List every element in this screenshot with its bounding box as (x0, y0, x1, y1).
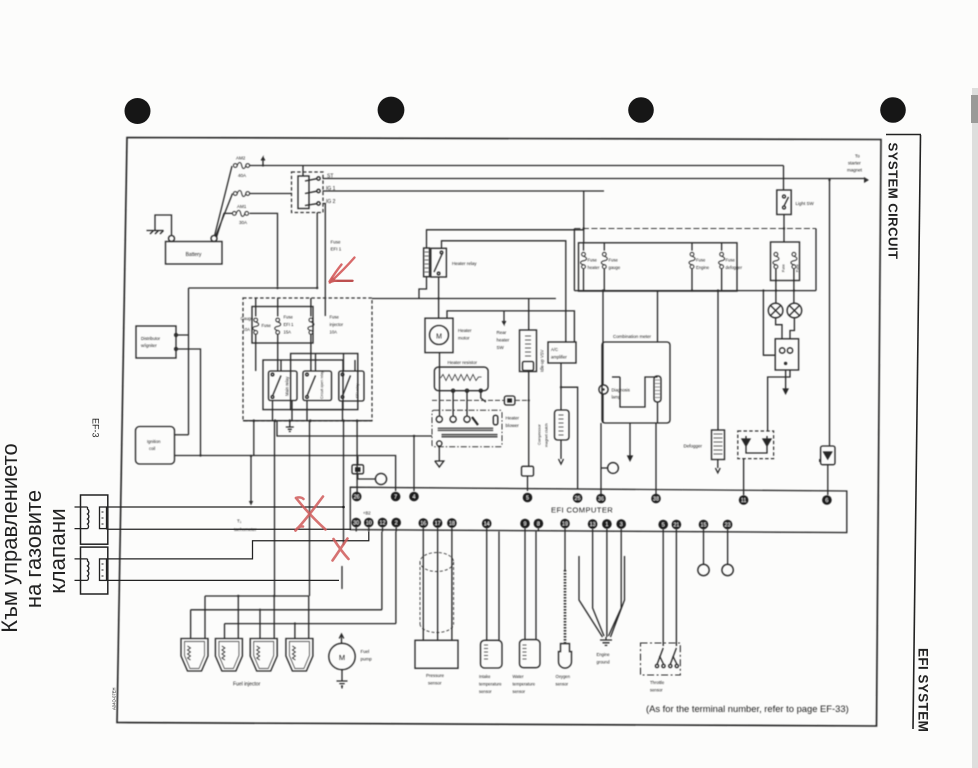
fuel pump (329, 643, 355, 669)
wire taillight bus dashed (574, 228, 816, 230)
wire heater relay contact to motor (438, 277, 440, 318)
svg-text:Heater: Heater (506, 416, 520, 421)
wire ST to starter magnet (323, 178, 865, 180)
inner fuse box (252, 307, 313, 344)
gas valve solenoid 2 (81, 547, 108, 594)
wire relay rail down to injector bus A (274, 421, 276, 596)
svg-text:30: 30 (353, 520, 359, 526)
svg-text:M: M (436, 334, 442, 341)
wire solenoid2 a step (107, 532, 369, 559)
svg-text:pump: pump (361, 657, 373, 662)
svg-text:30A: 30A (239, 220, 247, 225)
svg-text:Heater relay: Heater relay (452, 261, 477, 266)
svg-text:EFI 1: EFI 1 (331, 247, 342, 252)
svg-text:injector: injector (330, 322, 344, 327)
fuse mid (275, 318, 281, 334)
svg-text:Main relay: Main relay (285, 376, 290, 396)
svg-text:Circuit open relay: Circuit open relay (320, 371, 324, 399)
wire light SW out (783, 215, 785, 229)
water temperature sensor (520, 640, 541, 668)
svg-text:M: M (339, 653, 345, 662)
wires throttle sensor (663, 532, 676, 647)
fuse defogger tap (719, 252, 725, 268)
A/C amplifier (548, 342, 576, 363)
diagnosis connector W (352, 465, 364, 474)
svg-text:Light SW: Light SW (796, 201, 815, 206)
svg-text:16: 16 (420, 521, 426, 527)
svg-text:sensor: sensor (650, 688, 663, 693)
svg-text:1: 1 (605, 522, 608, 528)
svg-text:magnet clutch: magnet clutch (545, 423, 549, 447)
wire coil minus (IGt) (175, 456, 396, 492)
svg-text:defogger: defogger (726, 265, 743, 270)
svg-text:Fuse: Fuse (796, 264, 800, 272)
light SW (783, 166, 785, 191)
starter branch diode (829, 180, 831, 446)
svg-text:Fuse: Fuse (262, 323, 272, 328)
page right edge shadow (972, 88, 978, 768)
side tab vertical rule (913, 135, 921, 729)
svg-text:Throttle: Throttle (650, 680, 665, 685)
fuel injector 2 (215, 639, 242, 672)
binder hole dot 3 (628, 97, 654, 123)
injector bus B (191, 532, 382, 639)
defogger (717, 291, 719, 430)
red cut mark X2 (333, 539, 349, 561)
wire clutch to open arrow (559, 440, 564, 464)
wires water temp sensor (525, 532, 536, 641)
svg-text:3: 3 (620, 522, 623, 528)
stub up junction (261, 158, 265, 166)
svg-text:heater: heater (588, 265, 600, 270)
svg-text:Fuse: Fuse (782, 264, 786, 272)
svg-text:starter: starter (848, 161, 861, 166)
oxygen sensor (559, 644, 572, 669)
red arrow (329, 258, 355, 284)
svg-text:w/igniter: w/igniter (141, 343, 157, 348)
svg-text:A04O-07EH: A04O-07EH (112, 687, 117, 710)
fuse gauge 10A (253, 318, 259, 334)
EFI terminals top row (352, 492, 832, 505)
intake temperature sensor (481, 640, 503, 668)
fuse gauge (601, 252, 607, 268)
svg-text:Fuse: Fuse (696, 258, 706, 263)
wire solenoid1 b (107, 528, 352, 530)
fuel pump arrow stub (339, 634, 344, 644)
wire terminal26 feed (356, 421, 358, 492)
fuel injector 4 (286, 639, 313, 672)
ignition coil (136, 427, 175, 465)
side tab rule top (886, 134, 921, 136)
svg-text:magnet: magnet (847, 168, 863, 173)
binder hole dot 1 (125, 98, 151, 124)
svg-text:Fuse: Fuse (588, 258, 598, 263)
meter dangling arrow (628, 423, 632, 461)
svg-text:blower: blower (506, 423, 520, 428)
svg-text:10: 10 (366, 520, 372, 526)
svg-text:14: 14 (484, 521, 490, 527)
svg-text:sensor: sensor (479, 689, 492, 694)
switch open arrow (783, 370, 788, 394)
wires fuse verticals (256, 298, 326, 316)
relay group boxes (263, 360, 343, 410)
svg-text:(As for the terminal number, r: (As for the terminal number, refer to pa… (646, 703, 849, 714)
svg-text:19: 19 (562, 521, 568, 527)
EFI relay (339, 371, 364, 401)
svg-text:9: 9 (524, 521, 527, 527)
diagnosis lamp (599, 385, 608, 394)
svg-text:13: 13 (590, 522, 596, 528)
svg-text:EFI relay: EFI relay (356, 383, 360, 398)
fuse row box (579, 243, 738, 291)
svg-text:5: 5 (526, 495, 529, 501)
wire AM2 out to ignition switch (250, 166, 304, 194)
fusible link AM1 30A (232, 210, 248, 216)
svg-text:Fuse: Fuse (330, 315, 340, 320)
indicator lamp right (787, 303, 802, 318)
injector bus A (205, 595, 309, 597)
heater relay (424, 248, 430, 277)
fuse engine (689, 252, 695, 268)
svg-text:15: 15 (701, 522, 707, 528)
wire motor branch right (447, 311, 574, 342)
svg-text:Battery: Battery (186, 252, 202, 258)
wire motor to resistor to switch (440, 353, 486, 416)
heater blower switch (432, 410, 502, 447)
diode pack dashed (738, 431, 774, 459)
svg-text:21: 21 (673, 522, 679, 528)
svg-text:38: 38 (653, 496, 659, 502)
svg-text:To: To (855, 154, 860, 159)
wire battery plus to fusible links (215, 166, 233, 237)
svg-text:Fuse: Fuse (331, 240, 342, 245)
svg-text:18: 18 (449, 521, 455, 527)
svg-text:+B2: +B2 (363, 511, 371, 516)
wire oxygen sensor braided (564, 532, 566, 571)
svg-text:Engine: Engine (696, 265, 710, 270)
fuse heater (581, 252, 587, 268)
wire switch feed left (763, 291, 775, 356)
fuse injector 10A (308, 318, 314, 334)
distributor w/igniter (136, 326, 176, 358)
blower connector on wire (432, 399, 529, 401)
svg-text:gauge: gauge (609, 265, 621, 270)
accessory bus wire (574, 290, 816, 292)
fusible link mid (233, 191, 249, 197)
svg-text:AM2: AM2 (236, 156, 246, 161)
svg-text:Idle-up VSV: Idle-up VSV (540, 349, 545, 372)
wires intake temp sensor (487, 532, 499, 642)
pressure sensor (415, 640, 458, 668)
svg-text:temperature: temperature (513, 682, 536, 687)
engine ground funnel (579, 532, 625, 638)
meter resistor bar (654, 376, 661, 402)
svg-text:Distributor: Distributor (141, 336, 161, 341)
wires relays to bottom rail (273, 354, 356, 421)
schematic frame (117, 138, 881, 727)
svg-text:sensor: sensor (513, 689, 526, 694)
svg-text:ground: ground (597, 660, 611, 665)
svg-text:клапани: клапани (45, 508, 70, 593)
binder hole dot 4 (880, 97, 906, 123)
ground at relay rail (286, 421, 294, 432)
svg-text:Fuse: Fuse (726, 258, 736, 263)
wire AM1 out down (250, 213, 278, 286)
tach branch arrow (250, 456, 252, 503)
tail fuse pair box (771, 242, 800, 281)
EFI terminals bottom row (351, 518, 732, 530)
svg-text:на газовите: на газовите (21, 490, 46, 608)
wire EFI main feed across (372, 298, 556, 300)
svg-text:Fuel injector: Fuel injector (233, 682, 261, 688)
ground battery (155, 215, 172, 236)
svg-text:temperature: temperature (479, 682, 502, 687)
svg-text:17: 17 (435, 521, 441, 527)
check engine connector (608, 463, 619, 474)
svg-text:Combination meter: Combination meter (613, 334, 652, 339)
defogger switch (775, 339, 798, 370)
svg-text:36: 36 (598, 496, 604, 502)
wire ignition sw feed down (316, 213, 318, 289)
pressure sensor hose cylinder (420, 553, 454, 633)
svg-text:EF-3: EF-3 (91, 418, 101, 438)
wire IG2 down (323, 204, 326, 299)
meter outputs to EFI (601, 423, 656, 494)
wire distributor B+ (189, 287, 318, 289)
wire solenoid1 a (107, 506, 344, 508)
svg-text:10A: 10A (330, 330, 338, 335)
binder hole dot 2 (378, 97, 405, 124)
svg-text:Fuel: Fuel (361, 649, 370, 654)
svg-text:Compressor: Compressor (538, 424, 542, 445)
svg-text:Fuse: Fuse (284, 315, 294, 320)
ignition switch (292, 172, 324, 213)
svg-text:Към управлението: Към управлението (0, 443, 22, 632)
svg-text:EFI SYSTEM: EFI SYSTEM (916, 648, 931, 732)
blower switch ground (437, 441, 442, 446)
bottom row stubs (356, 527, 727, 531)
svg-text:11: 11 (741, 498, 747, 504)
svg-text:Water: Water (513, 674, 525, 679)
svg-text:7: 7 (394, 494, 397, 500)
svg-text:2: 2 (395, 520, 398, 526)
wire solenoid2 b (107, 579, 340, 581)
circuit opening relay (303, 371, 332, 401)
wire IG1 (323, 190, 605, 192)
fusible link AM2 40A (233, 163, 249, 169)
main relay (269, 371, 298, 401)
wire lamps to defogger switch (776, 318, 795, 339)
svg-text:Rear: Rear (497, 330, 507, 335)
compressor magnet clutch (555, 410, 570, 440)
fuel pump ground (337, 670, 348, 689)
svg-text:AM1: AM1 (237, 204, 247, 209)
wire heater relay feeds (427, 230, 584, 342)
wire rail stub left (253, 421, 255, 456)
relay/fuse dashed enclosure (243, 298, 372, 421)
wire distributor to riser (178, 288, 201, 456)
red cut mark X1 (296, 497, 326, 531)
svg-text:heater: heater (497, 338, 510, 343)
EFI COMPUTER box (350, 487, 847, 532)
wire relay rail down to injector bus A right (309, 421, 311, 596)
svg-text:A/C: A/C (551, 347, 558, 352)
wire relay rail cut stub (to gas valves) (342, 421, 344, 589)
svg-text:26: 26 (354, 494, 360, 500)
bottom rail of relay enclosure (243, 420, 372, 422)
wire main B+ top (250, 165, 784, 167)
svg-text:EFI COMPUTER: EFI COMPUTER (551, 506, 613, 515)
wire coil top terminal (175, 434, 189, 436)
wires EFI to pressure sensor (423, 532, 452, 641)
svg-text:Pressure: Pressure (426, 673, 445, 678)
svg-text:12: 12 (380, 520, 386, 526)
svg-text:sensor: sensor (556, 682, 569, 687)
svg-text:sensor: sensor (428, 681, 442, 686)
svg-text:Diagnosis: Diagnosis (612, 388, 630, 393)
svg-text:Defogger: Defogger (684, 444, 703, 449)
rear heater SW stub (502, 311, 506, 324)
gas valve solenoid 1 (81, 495, 108, 544)
svg-text:Gauge: Gauge (241, 316, 254, 321)
throttle sensor (641, 643, 681, 675)
fuse row stubs (584, 243, 722, 251)
svg-text:Heater: Heater (458, 328, 472, 333)
svg-text:8: 8 (537, 521, 540, 527)
svg-text:Fuse: Fuse (609, 258, 619, 263)
fuel injector 1 (181, 639, 208, 672)
wire VSV chain (528, 299, 530, 467)
svg-text:40A: 40A (238, 173, 246, 178)
wire diode to EFI 11 (743, 459, 745, 495)
fuel injector 3 (250, 639, 277, 672)
battery (166, 242, 223, 265)
svg-text:Oxygen: Oxygen (556, 674, 571, 679)
svg-text:Ignition: Ignition (147, 439, 161, 444)
svg-text:motor: motor (458, 336, 470, 341)
svg-text:EFI 1: EFI 1 (284, 322, 295, 327)
injector bus C (225, 532, 396, 639)
svg-text:4: 4 (413, 494, 416, 500)
svg-text:IG 2: IG 2 (326, 199, 336, 205)
svg-text:amplifier: amplifier (551, 355, 567, 360)
svg-text:6: 6 (825, 498, 828, 504)
svg-text:SW: SW (497, 345, 505, 350)
idle-up VSV (520, 330, 537, 372)
svg-text:Heater resistor: Heater resistor (448, 360, 478, 365)
svg-text:coil: coil (149, 446, 155, 451)
svg-text:Intake: Intake (479, 674, 491, 679)
svg-text:23: 23 (725, 522, 731, 528)
svg-text:SYSTEM CIRCUIT: SYSTEM CIRCUIT (886, 143, 901, 260)
svg-text:25: 25 (575, 496, 581, 502)
svg-text:10A: 10A (243, 327, 251, 332)
heater motor (425, 318, 453, 352)
wire blower feed from relay rail (277, 421, 432, 436)
svg-text:T₁: T₁ (237, 519, 242, 524)
indicator lamp left (768, 303, 783, 318)
wire terminal4 feed (413, 436, 415, 491)
svg-text:5: 5 (662, 522, 665, 528)
check connector circle (375, 473, 386, 484)
meter internal loop (620, 377, 658, 407)
wire switch to diode pack (768, 370, 790, 431)
wire heater relay coil out (419, 277, 427, 299)
wire amp to clutch (561, 363, 578, 489)
wire IG1 drop to fuse row (583, 191, 585, 243)
svg-text:15A: 15A (284, 330, 292, 335)
svg-text:Engine: Engine (597, 652, 611, 657)
connector rings (704, 532, 728, 565)
